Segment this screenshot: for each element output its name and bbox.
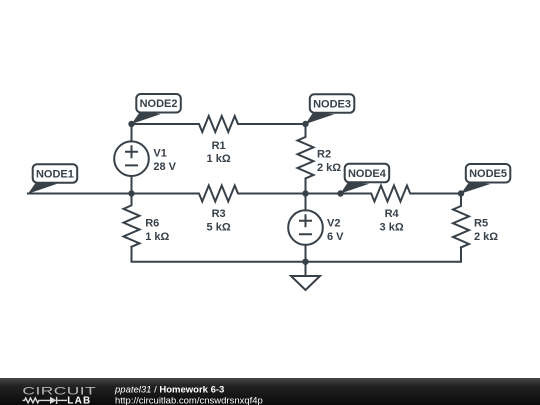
svg-text:ppatel31 / Homework 6-3: ppatel31 / Homework 6-3 bbox=[114, 385, 224, 396]
svg-text:NODE4: NODE4 bbox=[348, 168, 387, 180]
svg-text:http://circuitlab.com/cnswdrsn: http://circuitlab.com/cnswdrsnxqf4p bbox=[115, 396, 263, 405]
svg-text:6 V: 6 V bbox=[327, 231, 344, 243]
svg-text:NODE5: NODE5 bbox=[469, 168, 507, 180]
svg-text:R6: R6 bbox=[145, 217, 159, 229]
svg-text:R1: R1 bbox=[212, 140, 226, 152]
svg-text:LAB: LAB bbox=[67, 395, 91, 405]
svg-text:1 kΩ: 1 kΩ bbox=[207, 153, 231, 165]
svg-text:5 kΩ: 5 kΩ bbox=[207, 222, 231, 234]
svg-text:NODE2: NODE2 bbox=[140, 98, 178, 110]
svg-text:R5: R5 bbox=[474, 218, 488, 230]
svg-text:R4: R4 bbox=[385, 208, 400, 220]
svg-text:2 kΩ: 2 kΩ bbox=[317, 162, 341, 174]
svg-text:28 V: 28 V bbox=[153, 161, 176, 173]
svg-text:V2: V2 bbox=[327, 218, 340, 230]
svg-text:1 kΩ: 1 kΩ bbox=[145, 231, 169, 243]
svg-text:V1: V1 bbox=[153, 147, 166, 159]
svg-text:2 kΩ: 2 kΩ bbox=[474, 231, 498, 243]
svg-text:NODE3: NODE3 bbox=[313, 98, 351, 110]
svg-text:R2: R2 bbox=[317, 149, 331, 161]
svg-text:R3: R3 bbox=[212, 208, 226, 220]
svg-text:NODE1: NODE1 bbox=[36, 168, 74, 180]
svg-text:3 kΩ: 3 kΩ bbox=[380, 222, 404, 234]
